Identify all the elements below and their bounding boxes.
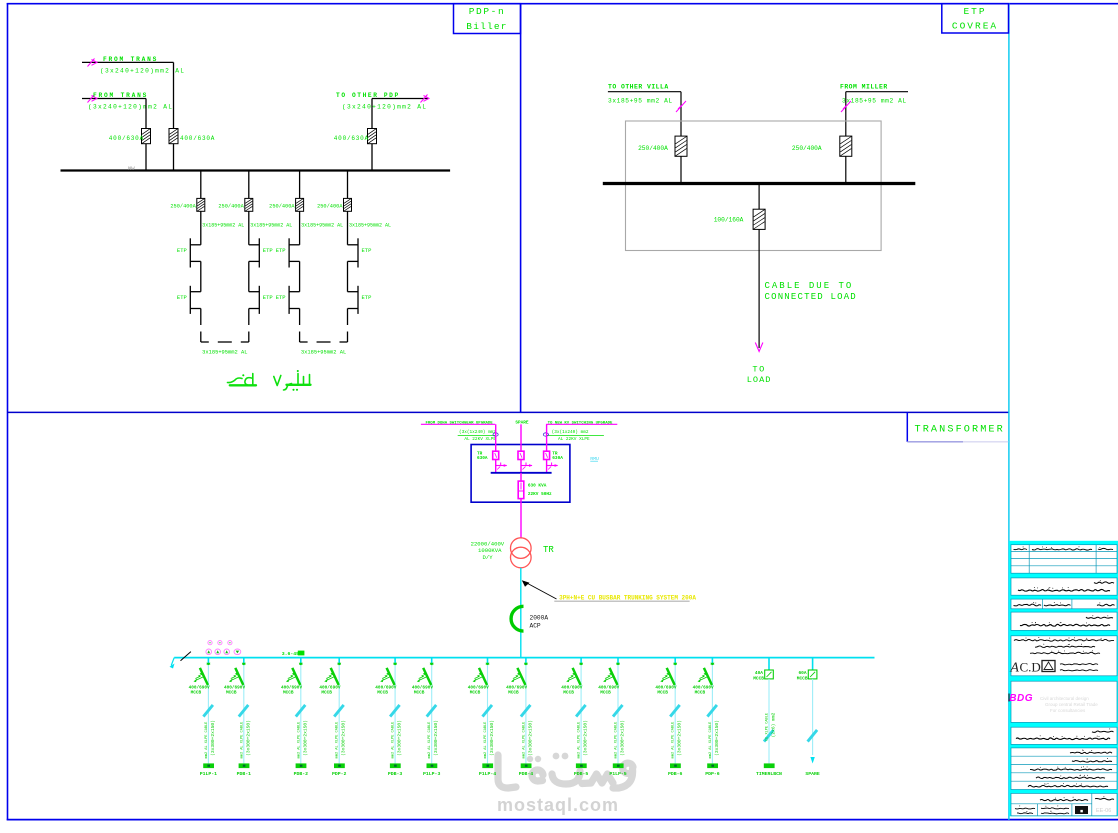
wire fuse right to busbar	[845, 156, 847, 183]
arrow W1	[88, 59, 98, 67]
wire between links column 3	[299, 261, 301, 291]
engineers box	[1011, 748, 1117, 790]
feeder PDB-4	[506, 658, 533, 778]
busbar left break	[170, 652, 191, 669]
svg-text:MCCB: MCCB	[508, 691, 519, 696]
svg-text:3x185+95mm2 AL: 3x185+95mm2 AL	[301, 350, 346, 356]
RMU switch 3 drop	[546, 424, 548, 451]
svg-text:COVREA: COVREA	[952, 21, 998, 32]
svg-text:MCCB: MCCB	[797, 675, 808, 681]
svg-text:LOAD: LOAD	[747, 375, 772, 385]
wire F2 to busbar	[173, 144, 175, 171]
owner box	[1011, 612, 1117, 630]
ACB 2000A arc	[511, 606, 523, 631]
svg-text:AL 22KV XLPE: AL 22KV XLPE	[464, 437, 496, 442]
svg-text:250/400A: 250/400A	[170, 204, 196, 210]
revision table	[1011, 545, 1117, 574]
link unit 2 column 4	[348, 286, 359, 314]
svg-text:TO: TO	[752, 365, 765, 375]
svg-text:MCCB: MCCB	[470, 691, 481, 696]
label CABLE DUE TO CONNECTED LOAD	[765, 281, 857, 302]
svg-text:■: ■	[1080, 808, 1083, 814]
enclosure outline ETP	[626, 121, 882, 251]
svg-text:(3x300+2x150): (3x300+2x150)	[583, 720, 589, 756]
wire between links column 1	[200, 261, 202, 291]
sheet name box	[1011, 727, 1117, 744]
svg-text:PDP-6: PDP-6	[705, 771, 720, 777]
svg-text:BDG: BDG	[1009, 693, 1033, 704]
LV riser	[520, 568, 522, 658]
label box TRANSFORMER	[907, 412, 1008, 441]
svg-text:P1LP-1: P1LP-1	[200, 771, 217, 777]
svg-text:3x185+95 mm2 AL: 3x185+95 mm2 AL	[608, 98, 673, 105]
svg-text:ETP: ETP	[362, 247, 372, 254]
svg-text:(3x300+2x150): (3x300+2x150)	[714, 720, 720, 756]
cable marker right	[841, 101, 851, 112]
svg-text:P1LP-3: P1LP-3	[423, 771, 440, 777]
loop connector pair 1	[201, 332, 249, 343]
wire column 4 fuse to link	[347, 211, 349, 245]
wire link to loop column 1	[200, 309, 202, 326]
wire load drop	[758, 184, 760, 210]
svg-text:mm2 AL XLPE CABLE: mm2 AL XLPE CABLE	[522, 722, 526, 759]
fuse column 1 250/400A	[197, 198, 205, 211]
svg-text:mm2 AL XLPE CABLE: mm2 AL XLPE CABLE	[615, 722, 619, 759]
link unit 1 column 3	[289, 238, 300, 267]
svg-text:ETP: ETP	[177, 294, 187, 301]
svg-text:For consultancies: For consultancies	[1050, 708, 1086, 713]
cable ellipse right	[543, 433, 548, 436]
arrow to load	[755, 343, 763, 352]
link unit 1 column 2	[249, 238, 259, 267]
svg-text:mm2 AL XLPE CABLE: mm2 AL XLPE CABLE	[297, 722, 301, 759]
svg-text:(3x300+2x150): (3x300+2x150)	[527, 720, 533, 756]
label box ETP COVREA	[942, 4, 1009, 33]
arrow W2	[88, 95, 98, 103]
svg-text:TO OTHER VILLA: TO OTHER VILLA	[608, 83, 669, 90]
svg-text:mm2 AL XLPE CABLE: mm2 AL XLPE CABLE	[392, 722, 396, 759]
wire between links column 4	[347, 261, 349, 291]
wire between links column 2	[248, 261, 250, 291]
RMU switch 1 drop	[495, 424, 497, 451]
feeder PDB-2	[281, 658, 308, 778]
svg-text:TO OTHER PDP: TO OTHER PDP	[336, 92, 400, 99]
panel divider horizontal	[7, 411, 1009, 413]
svg-text:MCCB: MCCB	[657, 691, 668, 696]
wire link to loop column 4	[347, 309, 349, 326]
svg-text:3x185+95mm2 AL: 3x185+95mm2 AL	[301, 223, 343, 229]
label RMU fuse	[528, 483, 552, 497]
svg-text:ETP: ETP	[263, 247, 273, 254]
fuse column 2 250/400A	[245, 198, 253, 211]
svg-text:400/630A: 400/630A	[180, 135, 215, 142]
meter circles	[206, 641, 241, 655]
svg-text:MCCB: MCCB	[563, 691, 574, 696]
callout arrow busbar trunking	[522, 580, 690, 601]
cable ellipse left	[493, 433, 498, 436]
link unit 1 column 4	[348, 238, 359, 267]
wire W3 drop	[371, 99, 373, 129]
svg-text:MCCB: MCCB	[600, 691, 611, 696]
svg-text:FROM TRANS: FROM TRANS	[93, 92, 148, 99]
svg-text:(3x300+2x150): (3x300+2x150)	[341, 720, 347, 756]
label busbar rating	[282, 651, 305, 657]
svg-text:AL 22KV XLPE: AL 22KV XLPE	[558, 437, 590, 442]
feeder PDB-3	[375, 658, 402, 778]
svg-text:(3x240+120)mm2 AL: (3x240+120)mm2 AL	[342, 104, 427, 111]
label RMU	[590, 456, 599, 462]
feeder P1LP-3	[412, 658, 441, 778]
feeder TIMERLBCN	[753, 658, 782, 778]
svg-text:250/400A: 250/400A	[269, 204, 295, 210]
transformer TR	[511, 538, 532, 568]
svg-text:PDP-2: PDP-2	[332, 771, 347, 777]
feeder PDB-1	[224, 658, 251, 778]
svg-text:(3x300+2x150): (3x300+2x150)	[397, 720, 403, 756]
svg-text:Group central Retail Trade: Group central Retail Trade	[1045, 702, 1098, 707]
svg-text:PDB-4: PDB-4	[519, 771, 534, 777]
svg-text:400/630A: 400/630A	[334, 135, 369, 142]
loop connector pair 2	[300, 332, 348, 343]
svg-text:TO NEW KV SWITCHING UPGRADE: TO NEW KV SWITCHING UPGRADE	[548, 421, 613, 425]
project box	[1011, 578, 1117, 595]
svg-text:(3x300+2x150): (3x300+2x150)	[302, 720, 308, 756]
fuse F3 400/630A	[368, 129, 377, 144]
svg-text:250/400A: 250/400A	[792, 145, 822, 152]
svg-text:MCCB: MCCB	[283, 691, 294, 696]
feeder P1LP-4	[468, 658, 497, 778]
svg-text:mm2 AL XLPE CABLE: mm2 AL XLPE CABLE	[672, 722, 676, 759]
link unit 2 column 3	[289, 286, 300, 314]
svg-text:630A: 630A	[477, 456, 488, 461]
svg-text:mm2 AL XLPE CABLE: mm2 AL XLPE CABLE	[578, 722, 582, 759]
svg-text:(3x300+2x150): (3x300+2x150)	[210, 720, 216, 756]
svg-text:Civil architectural design: Civil architectural design	[1040, 696, 1089, 701]
svg-text:(2x6) mm2: (2x6) mm2	[771, 712, 777, 737]
fuse F2 400/630A	[169, 129, 178, 144]
svg-text:(3x240+120)mm2 AL: (3x240+120)mm2 AL	[88, 104, 173, 111]
fuse column 3 250/400A	[296, 198, 304, 211]
HV line right	[546, 423, 617, 425]
arabic caption pillar 7 line	[228, 374, 311, 391]
RMU switch 3 link to busbar	[546, 460, 548, 473]
svg-text:ETP: ETP	[177, 247, 187, 254]
fuse ETP left 250/400A	[675, 136, 687, 156]
svg-text:(3x300+2x150): (3x300+2x150)	[620, 720, 626, 756]
svg-text:Biller: Biller	[466, 21, 507, 32]
svg-text:TRANSFORMER: TRANSFORMER	[915, 425, 1005, 436]
feeder PDP-2	[319, 658, 346, 778]
svg-text:ETP: ETP	[963, 6, 986, 17]
svg-text:60A: 60A	[798, 670, 806, 676]
svg-text:mostaql.com: mostaql.com	[497, 795, 619, 815]
svg-text:C.D: C.D	[1020, 660, 1041, 675]
RMU switch 2 link to busbar	[520, 460, 522, 473]
svg-text:100/160A: 100/160A	[714, 217, 744, 224]
feeder P1LP-1	[189, 658, 218, 778]
feeder column 3 drop	[299, 171, 301, 199]
fuse F1 400/630A	[142, 129, 151, 144]
svg-text:MCCB: MCCB	[377, 691, 388, 696]
wire fuse left to busbar	[680, 156, 682, 183]
svg-text:P1LP-5: P1LP-5	[609, 771, 626, 777]
feeder column 4 drop	[347, 171, 349, 199]
svg-text:SPARE: SPARE	[515, 420, 529, 425]
svg-text:(3x240+120)mm2 AL: (3x240+120)mm2 AL	[100, 68, 185, 75]
svg-text:3x185+95 mm2 AL: 3x185+95 mm2 AL	[842, 98, 907, 105]
label HV right cable	[546, 430, 604, 442]
svg-text:P1LP-4: P1LP-4	[479, 771, 496, 777]
RMU busbar	[491, 472, 552, 474]
HV cable to transformer	[520, 499, 522, 538]
panel divider vertical	[520, 3, 522, 412]
svg-text:250/400A: 250/400A	[638, 145, 668, 152]
LV busbar	[174, 657, 874, 659]
svg-text:MCCB: MCCB	[695, 691, 706, 696]
svg-text:3.6-45: 3.6-45	[282, 651, 299, 657]
busbar ETP	[603, 182, 916, 185]
svg-text:2000A: 2000A	[530, 615, 549, 622]
wire column 3 fuse to link	[299, 211, 301, 245]
svg-text:(3x300+2x150): (3x300+2x150)	[677, 720, 683, 756]
svg-text:(3x(1x240) mm2: (3x(1x240) mm2	[552, 430, 589, 435]
svg-text:630 KVA: 630 KVA	[528, 483, 547, 488]
svg-text:(3x300+2x150): (3x300+2x150)	[433, 720, 439, 756]
svg-text:EE-06: EE-06	[1096, 808, 1111, 814]
fuse ETP right 250/400A	[840, 136, 852, 156]
fuse ETP load 100/160A	[753, 209, 765, 229]
svg-text:TIMERLBCN: TIMERLBCN	[756, 771, 782, 777]
cable marker left	[676, 101, 686, 112]
feeder PDB-5	[561, 658, 588, 778]
arrow W3	[421, 95, 430, 103]
svg-text:PDB-5: PDB-5	[574, 771, 589, 777]
fuse column 4 250/400A	[344, 198, 352, 211]
svg-text:FROM DOHA SWITCHGEAR UPGRADE: FROM DOHA SWITCHGEAR UPGRADE	[426, 421, 494, 425]
label 2000A ACP	[530, 615, 549, 630]
wire ETP right drop	[845, 92, 847, 136]
feeder SPARE	[797, 658, 820, 778]
wire ETP left drop	[680, 92, 682, 136]
label box PDP-n Biller	[454, 4, 521, 34]
RMU switch 2 drop	[520, 424, 522, 451]
logo box BDG	[1009, 681, 1117, 722]
title block background	[1009, 541, 1118, 817]
svg-text:NW: NW	[128, 165, 135, 172]
label TR 630A left	[477, 451, 488, 461]
wire ETP left TO OTHER VILLA	[608, 91, 681, 93]
right margin line	[1008, 3, 1010, 820]
svg-text:MCCB: MCCB	[226, 691, 237, 696]
feeder P1LP-5	[598, 658, 627, 778]
plot box	[1011, 599, 1117, 609]
sheet number box	[1011, 793, 1117, 815]
wire W2 drop	[145, 99, 147, 129]
wire link to loop column 2	[248, 309, 250, 326]
revision table text	[1014, 546, 1114, 550]
svg-text:ETP: ETP	[276, 247, 286, 254]
svg-text:ETP: ETP	[263, 294, 273, 301]
HV line left	[421, 423, 495, 425]
RMU switch 1 operator	[496, 463, 508, 470]
watermark	[497, 753, 633, 815]
busbar main pillar	[61, 169, 451, 171]
wire W1 incoming top	[82, 61, 174, 63]
RMU switch 1 box	[493, 451, 499, 459]
svg-text:MCCB: MCCB	[753, 675, 764, 681]
RMU switch 2 box	[518, 451, 524, 459]
svg-text:22KV 50Hz: 22KV 50Hz	[528, 492, 552, 497]
svg-text:ETP: ETP	[276, 294, 286, 301]
svg-text:3x185+95mm2 AL: 3x185+95mm2 AL	[202, 350, 247, 356]
wire load down	[758, 229, 760, 348]
link unit 2 column 1	[190, 286, 201, 314]
wire W3 outgoing TO OTHER PDP	[372, 98, 428, 100]
wire ETP right FROM MILLER	[846, 91, 908, 93]
wire F3 to busbar	[371, 144, 373, 171]
svg-text:3PH+N+E CU BUSBAR TRUNKING SYS: 3PH+N+E CU BUSBAR TRUNKING SYSTEM 200A	[559, 595, 696, 602]
RMU switch 1 link to busbar	[495, 460, 497, 473]
svg-text:CONNECTED LOAD: CONNECTED LOAD	[765, 292, 857, 302]
svg-text:MCCB: MCCB	[414, 691, 425, 696]
wire column 1 fuse to link	[200, 211, 202, 245]
svg-text:mm2 AL XLPE CABLE: mm2 AL XLPE CABLE	[205, 722, 209, 759]
svg-text:3x185+95mm2 AL: 3x185+95mm2 AL	[250, 223, 292, 229]
wire W2 incoming	[82, 98, 146, 100]
RMU switch 2 operator	[521, 463, 533, 470]
svg-text:ETP: ETP	[362, 294, 372, 301]
svg-text:630A: 630A	[552, 456, 563, 461]
label transformer rating	[471, 541, 505, 562]
svg-text:3x185+95mm2 AL: 3x185+95mm2 AL	[202, 223, 244, 229]
svg-text:250/400A: 250/400A	[218, 204, 244, 210]
svg-text:TR: TR	[543, 545, 554, 555]
svg-text:40A: 40A	[755, 670, 763, 676]
label TR 630A right	[552, 451, 563, 461]
svg-text:PDB-1: PDB-1	[237, 771, 252, 777]
RMU switch 3 operator	[547, 463, 559, 470]
svg-text:ACP: ACP	[530, 622, 541, 629]
svg-text:A: A	[1009, 661, 1019, 676]
svg-text:(3x300+2x150): (3x300+2x150)	[245, 720, 251, 756]
svg-text:MCCB: MCCB	[321, 691, 332, 696]
wire link to loop column 3	[299, 309, 301, 326]
feeder PDB-6	[655, 658, 682, 778]
RMU switch 3 box	[544, 451, 550, 459]
svg-text:FROM TRANS: FROM TRANS	[103, 56, 158, 63]
svg-text:CABLE DUE TO: CABLE DUE TO	[765, 281, 854, 291]
svg-text:FROM MILLER: FROM MILLER	[840, 83, 888, 90]
svg-text:PDB-2: PDB-2	[294, 771, 309, 777]
link unit 2 column 2	[249, 286, 259, 314]
feeder column 2 drop	[248, 171, 250, 199]
svg-text:SPARE: SPARE	[805, 771, 820, 777]
wire W1 drop	[173, 62, 175, 128]
svg-text:PDP-n: PDP-n	[469, 6, 506, 17]
svg-text:PDB-6: PDB-6	[668, 771, 683, 777]
svg-text:250/400A: 250/400A	[317, 204, 343, 210]
feeder PDP-6	[693, 658, 720, 778]
label HV left cable	[458, 430, 497, 442]
wire F1 to busbar	[145, 144, 147, 171]
svg-text:mm2 AL XLPE CABLE: mm2 AL XLPE CABLE	[428, 722, 432, 759]
svg-text:mm2 AL XLPE CABLE: mm2 AL XLPE CABLE	[336, 722, 340, 759]
wire column 2 fuse to link	[248, 211, 250, 245]
svg-text:MCCB: MCCB	[191, 691, 202, 696]
svg-text:mm2 AL XLPE CABLE: mm2 AL XLPE CABLE	[240, 722, 244, 759]
svg-text:mm2 AL XLPE CABLE: mm2 AL XLPE CABLE	[484, 722, 488, 759]
svg-text:3x185+95mm2 AL: 3x185+95mm2 AL	[349, 223, 391, 229]
svg-text:D/Y: D/Y	[483, 554, 494, 561]
svg-text:(3x(1x240) mm2: (3x(1x240) mm2	[459, 430, 496, 435]
RMU enclosure	[471, 445, 570, 503]
svg-text:(3x300+2x150): (3x300+2x150)	[489, 720, 495, 756]
office box	[1009, 636, 1117, 676]
label TO LOAD	[747, 365, 772, 386]
svg-text:PDB-3: PDB-3	[388, 771, 403, 777]
svg-text:mm2 AL XLPE CABLE: mm2 AL XLPE CABLE	[709, 722, 713, 759]
feeder column 1 drop	[200, 171, 202, 199]
svg-text:400/630A: 400/630A	[109, 135, 144, 142]
RMU fuse HV	[518, 473, 524, 499]
link unit 1 column 1	[190, 238, 201, 267]
svg-text:CU XLPE CABLE: CU XLPE CABLE	[766, 713, 770, 741]
